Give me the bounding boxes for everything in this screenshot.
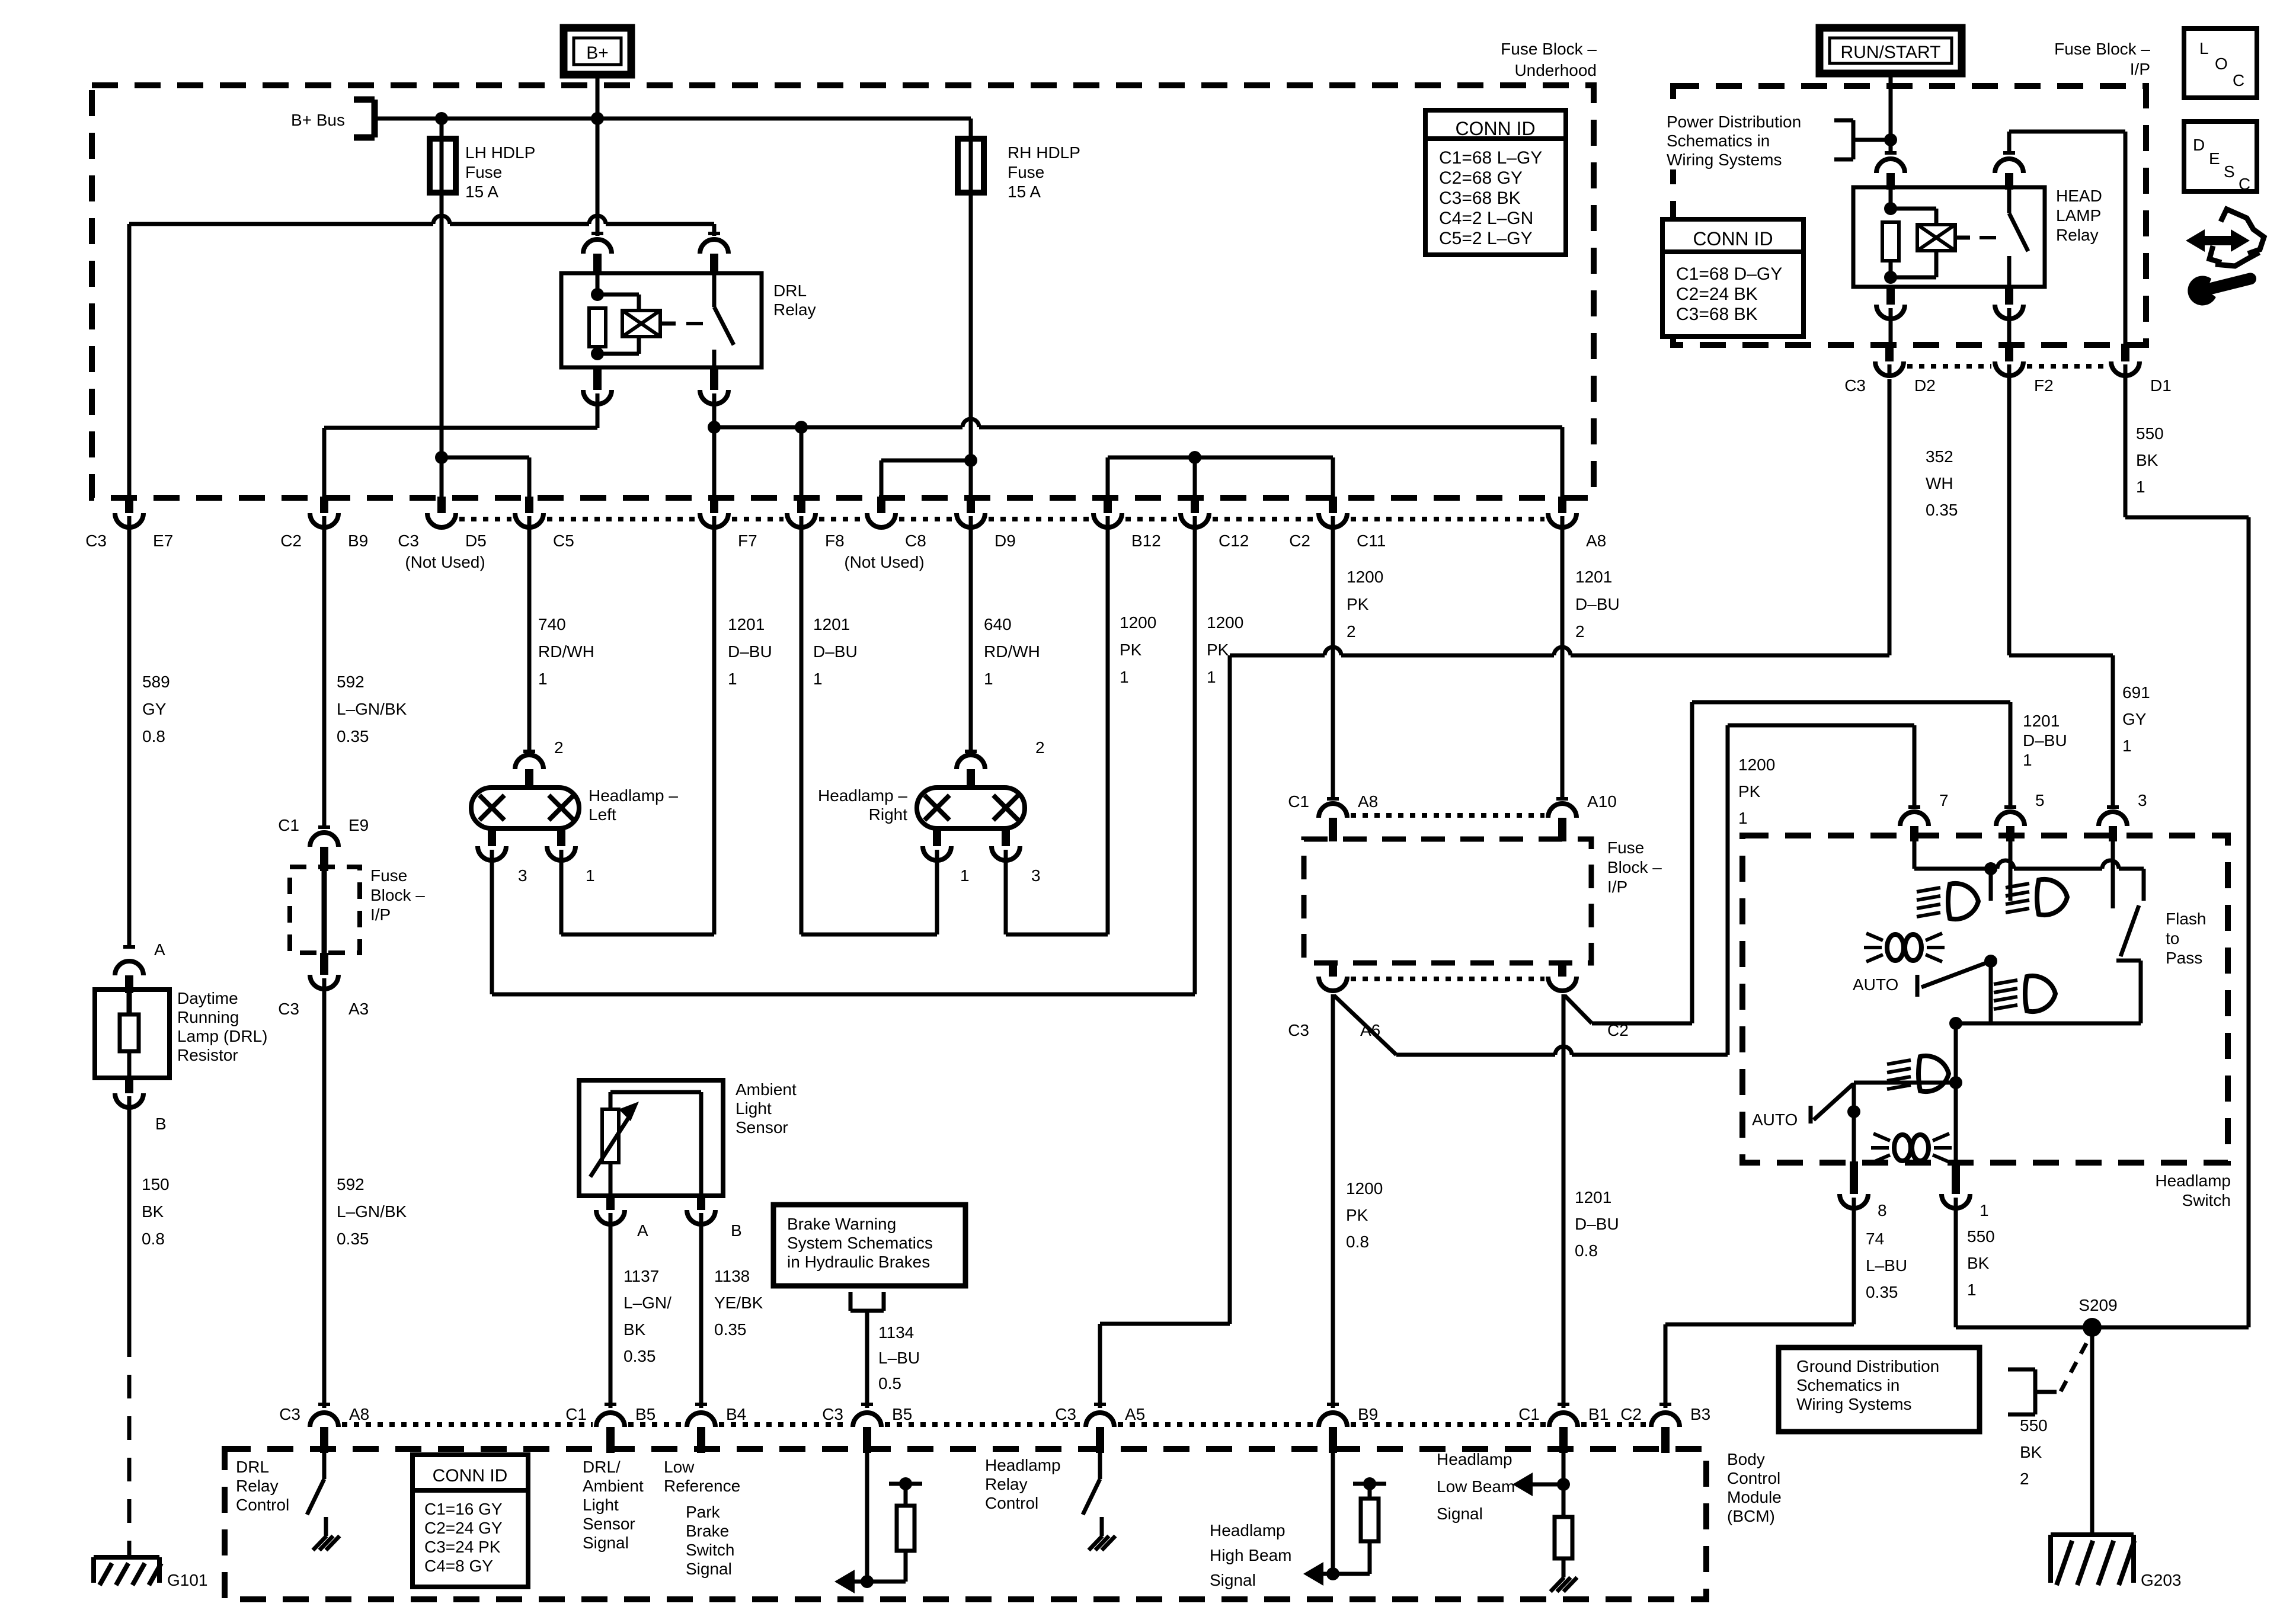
svg-text:F7: F7 xyxy=(738,532,757,550)
svg-text:L–BU: L–BU xyxy=(878,1349,920,1367)
svg-text:to: to xyxy=(2166,929,2179,948)
svg-text:A10: A10 xyxy=(1587,792,1617,811)
svg-text:Block –: Block – xyxy=(1607,858,1662,876)
svg-text:D–BU: D–BU xyxy=(1575,595,1620,613)
svg-text:Headlamp –: Headlamp – xyxy=(589,786,678,805)
svg-text:Reference: Reference xyxy=(664,1477,740,1495)
svg-text:Signal: Signal xyxy=(1437,1505,1483,1523)
svg-text:D5: D5 xyxy=(465,532,487,550)
svg-text:LH HDLP: LH HDLP xyxy=(465,143,535,162)
svg-text:A8: A8 xyxy=(1358,792,1378,811)
svg-text:1201: 1201 xyxy=(2023,712,2060,730)
svg-text:1: 1 xyxy=(1120,668,1129,686)
svg-text:Headlamp: Headlamp xyxy=(1437,1450,1512,1468)
svg-text:HEAD: HEAD xyxy=(2056,187,2102,205)
svg-text:C3=68 BK: C3=68 BK xyxy=(1676,305,1758,324)
svg-text:3: 3 xyxy=(518,866,527,885)
svg-text:2: 2 xyxy=(2020,1470,2029,1488)
svg-text:550: 550 xyxy=(2020,1416,2048,1435)
svg-text:S: S xyxy=(2224,162,2235,181)
svg-text:C1=68 D–GY: C1=68 D–GY xyxy=(1676,264,1782,284)
svg-text:D–BU: D–BU xyxy=(813,642,858,661)
svg-text:High Beam: High Beam xyxy=(1210,1546,1292,1564)
svg-text:0.8: 0.8 xyxy=(1346,1233,1369,1251)
svg-text:PK: PK xyxy=(1120,641,1142,659)
svg-text:Control: Control xyxy=(985,1494,1038,1512)
svg-text:C1: C1 xyxy=(278,816,299,834)
svg-text:(Not Used): (Not Used) xyxy=(405,553,485,571)
svg-text:1200: 1200 xyxy=(1346,1179,1383,1198)
svg-text:0.35: 0.35 xyxy=(337,1230,369,1248)
svg-text:C3: C3 xyxy=(1288,1021,1309,1039)
svg-text:C4=8 GY: C4=8 GY xyxy=(424,1557,493,1575)
svg-text:GY: GY xyxy=(142,700,167,718)
svg-text:AUTO: AUTO xyxy=(1853,975,1898,994)
svg-text:BK: BK xyxy=(2020,1443,2042,1461)
svg-text:BK: BK xyxy=(1967,1254,1990,1272)
svg-text:C2=68 GY: C2=68 GY xyxy=(1439,168,1523,188)
svg-text:C3: C3 xyxy=(822,1405,843,1423)
svg-text:C3=24 PK: C3=24 PK xyxy=(424,1538,501,1556)
svg-text:1200: 1200 xyxy=(1738,756,1775,774)
svg-text:Light: Light xyxy=(583,1496,619,1514)
svg-text:B: B xyxy=(731,1221,742,1240)
svg-text:DRL/: DRL/ xyxy=(583,1458,621,1476)
svg-text:(BCM): (BCM) xyxy=(1727,1507,1775,1525)
svg-text:BK: BK xyxy=(2136,451,2159,469)
svg-text:CONN ID: CONN ID xyxy=(1455,118,1535,139)
svg-text:592: 592 xyxy=(337,673,364,691)
svg-text:C5=2 L–GY: C5=2 L–GY xyxy=(1439,229,1533,248)
svg-text:550: 550 xyxy=(2136,424,2164,443)
svg-text:Power Distribution: Power Distribution xyxy=(1667,113,1801,131)
svg-text:RD/WH: RD/WH xyxy=(538,642,594,661)
svg-text:Wiring Systems: Wiring Systems xyxy=(1796,1395,1911,1413)
svg-text:Signal: Signal xyxy=(1210,1571,1256,1589)
svg-text:Schematics in: Schematics in xyxy=(1796,1376,1900,1394)
svg-text:Signal: Signal xyxy=(583,1534,629,1552)
svg-text:Fuse: Fuse xyxy=(1607,838,1644,857)
svg-text:1201: 1201 xyxy=(1575,568,1612,586)
svg-text:C1: C1 xyxy=(565,1405,587,1423)
svg-text:S209: S209 xyxy=(2078,1296,2117,1314)
svg-text:PK: PK xyxy=(1207,641,1229,659)
svg-text:Headlamp: Headlamp xyxy=(1210,1521,1285,1539)
svg-text:Relay: Relay xyxy=(773,300,816,319)
svg-text:AUTO: AUTO xyxy=(1752,1110,1798,1129)
svg-text:740: 740 xyxy=(538,615,566,633)
svg-text:Ground Distribution: Ground Distribution xyxy=(1796,1357,1939,1375)
svg-text:B9: B9 xyxy=(1358,1405,1378,1423)
svg-text:Light: Light xyxy=(736,1099,772,1118)
svg-text:C: C xyxy=(2233,71,2244,89)
svg-text:I/P: I/P xyxy=(370,905,391,924)
svg-text:150: 150 xyxy=(142,1175,170,1193)
svg-text:L–GN/BK: L–GN/BK xyxy=(337,700,407,718)
svg-text:1: 1 xyxy=(984,670,993,688)
svg-text:691: 691 xyxy=(2122,683,2150,702)
svg-text:C2=24 GY: C2=24 GY xyxy=(424,1519,503,1537)
svg-text:B5: B5 xyxy=(635,1405,655,1423)
svg-text:L–GN/: L–GN/ xyxy=(623,1294,671,1312)
svg-text:1: 1 xyxy=(2122,737,2132,755)
svg-text:B12: B12 xyxy=(1131,532,1161,550)
svg-text:G203: G203 xyxy=(2141,1571,2182,1589)
svg-text:1: 1 xyxy=(728,670,737,688)
svg-text:15 A: 15 A xyxy=(1008,183,1041,201)
svg-text:Headlamp –: Headlamp – xyxy=(818,786,907,805)
svg-text:Control: Control xyxy=(236,1496,289,1514)
svg-text:Fuse: Fuse xyxy=(465,163,502,181)
svg-text:Block –: Block – xyxy=(370,886,425,904)
svg-text:Headlamp: Headlamp xyxy=(985,1456,1061,1474)
svg-text:Switch: Switch xyxy=(2182,1191,2231,1209)
svg-text:RD/WH: RD/WH xyxy=(984,642,1040,661)
svg-text:0.35: 0.35 xyxy=(623,1347,656,1365)
svg-text:D9: D9 xyxy=(994,532,1016,550)
svg-text:E7: E7 xyxy=(153,532,173,550)
svg-text:1: 1 xyxy=(538,670,548,688)
svg-text:Lamp (DRL): Lamp (DRL) xyxy=(177,1027,267,1045)
svg-text:PK: PK xyxy=(1347,595,1369,613)
svg-text:Wiring Systems: Wiring Systems xyxy=(1667,151,1782,169)
svg-text:O: O xyxy=(2215,55,2228,73)
svg-text:A8: A8 xyxy=(1586,532,1606,550)
svg-text:I/P: I/P xyxy=(2130,60,2150,78)
svg-text:LAMP: LAMP xyxy=(2056,206,2101,225)
svg-text:640: 640 xyxy=(984,615,1012,633)
svg-text:F8: F8 xyxy=(825,532,845,550)
svg-text:DRL: DRL xyxy=(773,281,807,300)
svg-text:Brake Warning: Brake Warning xyxy=(787,1215,896,1233)
svg-text:Brake: Brake xyxy=(686,1522,729,1540)
svg-text:C11: C11 xyxy=(1357,532,1386,550)
svg-text:1: 1 xyxy=(813,670,823,688)
svg-text:L: L xyxy=(2199,39,2209,57)
svg-text:WH: WH xyxy=(1926,474,1953,492)
svg-text:1: 1 xyxy=(2136,478,2145,496)
svg-text:Underhood: Underhood xyxy=(1514,61,1597,79)
svg-text:A5: A5 xyxy=(1125,1405,1145,1423)
svg-text:1138: 1138 xyxy=(714,1267,750,1285)
svg-text:G101: G101 xyxy=(167,1571,208,1589)
svg-text:Fuse Block –: Fuse Block – xyxy=(1501,40,1597,58)
svg-text:3: 3 xyxy=(2138,791,2147,809)
svg-text:PK: PK xyxy=(1738,782,1761,801)
svg-text:D–BU: D–BU xyxy=(2023,731,2067,750)
svg-text:Relay: Relay xyxy=(2056,226,2099,244)
svg-text:2: 2 xyxy=(1347,622,1356,641)
svg-text:L–GN/BK: L–GN/BK xyxy=(337,1202,407,1221)
svg-text:A: A xyxy=(154,940,165,959)
svg-text:E9: E9 xyxy=(348,816,369,834)
svg-text:7: 7 xyxy=(1939,791,1949,809)
svg-text:Daytime: Daytime xyxy=(177,989,238,1007)
svg-text:0.8: 0.8 xyxy=(142,727,165,745)
svg-text:(Not Used): (Not Used) xyxy=(844,553,924,571)
svg-text:D1: D1 xyxy=(2150,376,2172,395)
svg-text:Module: Module xyxy=(1727,1488,1782,1506)
svg-text:3: 3 xyxy=(1031,866,1041,885)
svg-text:Pass: Pass xyxy=(2166,949,2202,967)
svg-text:D–BU: D–BU xyxy=(1575,1215,1619,1233)
svg-text:C3: C3 xyxy=(85,532,107,550)
svg-text:0.35: 0.35 xyxy=(1866,1283,1898,1301)
svg-text:C: C xyxy=(2239,175,2250,193)
svg-text:C2=24 BK: C2=24 BK xyxy=(1676,284,1758,304)
svg-text:Sensor: Sensor xyxy=(583,1515,635,1533)
svg-text:Schematics in: Schematics in xyxy=(1667,132,1770,150)
svg-text:1: 1 xyxy=(1738,809,1748,827)
svg-text:15 A: 15 A xyxy=(465,183,498,201)
svg-text:CONN ID: CONN ID xyxy=(433,1466,508,1486)
svg-text:1: 1 xyxy=(2023,751,2032,769)
svg-text:1134: 1134 xyxy=(878,1323,914,1342)
svg-text:Park: Park xyxy=(686,1503,721,1521)
svg-text:C1: C1 xyxy=(1518,1405,1540,1423)
svg-text:BK: BK xyxy=(623,1320,646,1339)
svg-text:Left: Left xyxy=(589,805,616,824)
svg-text:B4: B4 xyxy=(726,1405,746,1423)
svg-text:1: 1 xyxy=(1967,1281,1977,1299)
svg-text:C2: C2 xyxy=(280,532,302,550)
svg-text:Switch: Switch xyxy=(686,1541,734,1559)
svg-text:592: 592 xyxy=(337,1175,364,1193)
svg-text:Ambient: Ambient xyxy=(736,1080,797,1099)
svg-text:Running: Running xyxy=(177,1008,239,1026)
svg-text:in Hydraulic Brakes: in Hydraulic Brakes xyxy=(787,1253,930,1271)
svg-text:D: D xyxy=(2193,136,2205,154)
svg-text:1: 1 xyxy=(1980,1201,1989,1219)
svg-text:Flash: Flash xyxy=(2166,910,2206,928)
svg-text:Fuse: Fuse xyxy=(1008,163,1044,181)
svg-text:BK: BK xyxy=(142,1202,164,1221)
svg-text:0.35: 0.35 xyxy=(1926,501,1958,519)
svg-text:RH HDLP: RH HDLP xyxy=(1008,143,1080,162)
svg-text:B1: B1 xyxy=(1588,1405,1609,1423)
svg-text:C1=68 L–GY: C1=68 L–GY xyxy=(1439,148,1542,168)
svg-text:System Schematics: System Schematics xyxy=(787,1234,933,1252)
svg-text:Fuse: Fuse xyxy=(370,866,407,885)
svg-text:8: 8 xyxy=(1878,1201,1887,1219)
svg-text:589: 589 xyxy=(142,673,170,691)
svg-text:Relay: Relay xyxy=(236,1477,279,1495)
svg-text:74: 74 xyxy=(1866,1230,1884,1248)
svg-text:Signal: Signal xyxy=(686,1560,732,1578)
svg-text:RUN/START: RUN/START xyxy=(1841,43,1941,62)
svg-text:Headlamp: Headlamp xyxy=(2155,1172,2231,1190)
svg-text:1201: 1201 xyxy=(728,615,765,633)
svg-text:1200: 1200 xyxy=(1120,613,1156,632)
svg-text:1: 1 xyxy=(960,866,970,885)
svg-text:0.35: 0.35 xyxy=(337,727,369,745)
svg-text:C3: C3 xyxy=(1844,376,1866,395)
svg-text:B+: B+ xyxy=(586,43,609,63)
svg-text:A3: A3 xyxy=(348,1000,369,1018)
svg-text:C5: C5 xyxy=(553,532,574,550)
svg-text:1: 1 xyxy=(1207,668,1216,686)
svg-text:C4=2 L–GN: C4=2 L–GN xyxy=(1439,209,1533,228)
svg-text:GY: GY xyxy=(2122,710,2147,728)
svg-text:1201: 1201 xyxy=(1575,1188,1611,1206)
svg-text:C3: C3 xyxy=(278,1000,299,1018)
svg-text:C12: C12 xyxy=(1219,532,1249,550)
svg-text:1: 1 xyxy=(586,866,595,885)
svg-text:Ambient: Ambient xyxy=(583,1477,644,1495)
svg-text:C2: C2 xyxy=(1620,1405,1642,1423)
svg-text:B: B xyxy=(155,1115,167,1133)
svg-text:L–BU: L–BU xyxy=(1866,1256,1907,1275)
svg-text:Control: Control xyxy=(1727,1469,1780,1487)
svg-text:0.8: 0.8 xyxy=(142,1230,165,1248)
svg-text:DRL: DRL xyxy=(236,1458,269,1476)
svg-text:CONN ID: CONN ID xyxy=(1693,228,1773,249)
svg-text:C3: C3 xyxy=(398,532,419,550)
svg-text:D2: D2 xyxy=(1914,376,1936,395)
svg-text:C3: C3 xyxy=(279,1405,300,1423)
svg-text:0.5: 0.5 xyxy=(878,1374,901,1393)
svg-text:1200: 1200 xyxy=(1207,613,1243,632)
svg-text:C1=16 GY: C1=16 GY xyxy=(424,1500,503,1518)
svg-text:C3=68 BK: C3=68 BK xyxy=(1439,188,1521,208)
svg-text:Relay: Relay xyxy=(985,1475,1028,1493)
svg-text:E: E xyxy=(2209,149,2220,168)
svg-text:1137: 1137 xyxy=(623,1267,659,1285)
svg-text:0.35: 0.35 xyxy=(714,1320,747,1339)
svg-text:550: 550 xyxy=(1967,1227,1995,1246)
svg-text:PK: PK xyxy=(1346,1206,1368,1224)
svg-text:Low: Low xyxy=(664,1458,695,1476)
svg-text:5: 5 xyxy=(2035,791,2045,809)
svg-text:B+ Bus: B+ Bus xyxy=(291,111,345,129)
svg-text:C2: C2 xyxy=(1289,532,1310,550)
svg-text:YE/BK: YE/BK xyxy=(714,1294,763,1312)
svg-text:Right: Right xyxy=(869,805,908,824)
svg-text:2: 2 xyxy=(554,738,564,757)
svg-text:A8: A8 xyxy=(349,1405,369,1423)
svg-text:2: 2 xyxy=(1035,738,1045,757)
svg-text:1201: 1201 xyxy=(813,615,850,633)
svg-text:C1: C1 xyxy=(1288,792,1309,811)
svg-text:B5: B5 xyxy=(892,1405,912,1423)
svg-text:A: A xyxy=(637,1221,648,1240)
svg-text:1200: 1200 xyxy=(1347,568,1383,586)
svg-text:2: 2 xyxy=(1575,622,1585,641)
svg-text:Low Beam: Low Beam xyxy=(1437,1477,1515,1496)
svg-text:C8: C8 xyxy=(905,532,926,550)
svg-text:0.8: 0.8 xyxy=(1575,1241,1598,1260)
svg-text:B9: B9 xyxy=(348,532,368,550)
svg-text:D–BU: D–BU xyxy=(728,642,772,661)
svg-text:Body: Body xyxy=(1727,1450,1765,1468)
svg-text:Resistor: Resistor xyxy=(177,1046,238,1064)
svg-text:352: 352 xyxy=(1926,447,1953,466)
svg-text:F2: F2 xyxy=(2034,376,2054,395)
svg-text:B3: B3 xyxy=(1690,1405,1710,1423)
svg-text:Fuse Block –: Fuse Block – xyxy=(2054,40,2150,58)
svg-text:Sensor: Sensor xyxy=(736,1118,788,1137)
svg-text:C3: C3 xyxy=(1055,1405,1076,1423)
svg-text:I/P: I/P xyxy=(1607,878,1627,896)
